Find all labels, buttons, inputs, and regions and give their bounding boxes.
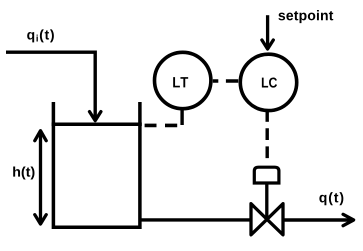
label setpoint xyxy=(278,10,333,23)
wire pipe valve outlet xyxy=(283,218,354,221)
wire pipe tank to valve xyxy=(140,218,251,221)
label q(t) xyxy=(319,192,343,205)
label LT xyxy=(173,77,188,87)
label h(t) xyxy=(13,166,34,179)
wire dashed LT to LC xyxy=(213,79,238,83)
label LC xyxy=(262,78,277,88)
wire dashed LC to valve actuator xyxy=(266,128,269,158)
instrument LC xyxy=(240,54,296,110)
valve body left triangle xyxy=(251,204,267,235)
wire LC bottom stub xyxy=(266,110,269,122)
instrument LT xyxy=(155,52,211,108)
arrow setpoint into LC xyxy=(262,15,273,49)
arrowhead outlet q(t) xyxy=(343,214,354,225)
arrowhead inlet into tank xyxy=(90,112,101,121)
liquid level line xyxy=(52,122,142,126)
wire LT bottom stub xyxy=(180,108,183,125)
valve body right triangle xyxy=(267,204,283,235)
wire inlet horizontal and drop xyxy=(6,52,95,120)
label qi(t) xyxy=(27,29,54,42)
arrow h(t) double-headed xyxy=(35,131,46,224)
tank walls and bottom xyxy=(53,102,139,227)
wire actuator stem xyxy=(265,185,268,220)
valve actuator xyxy=(254,167,279,183)
wire dashed tank to LT xyxy=(145,124,178,128)
